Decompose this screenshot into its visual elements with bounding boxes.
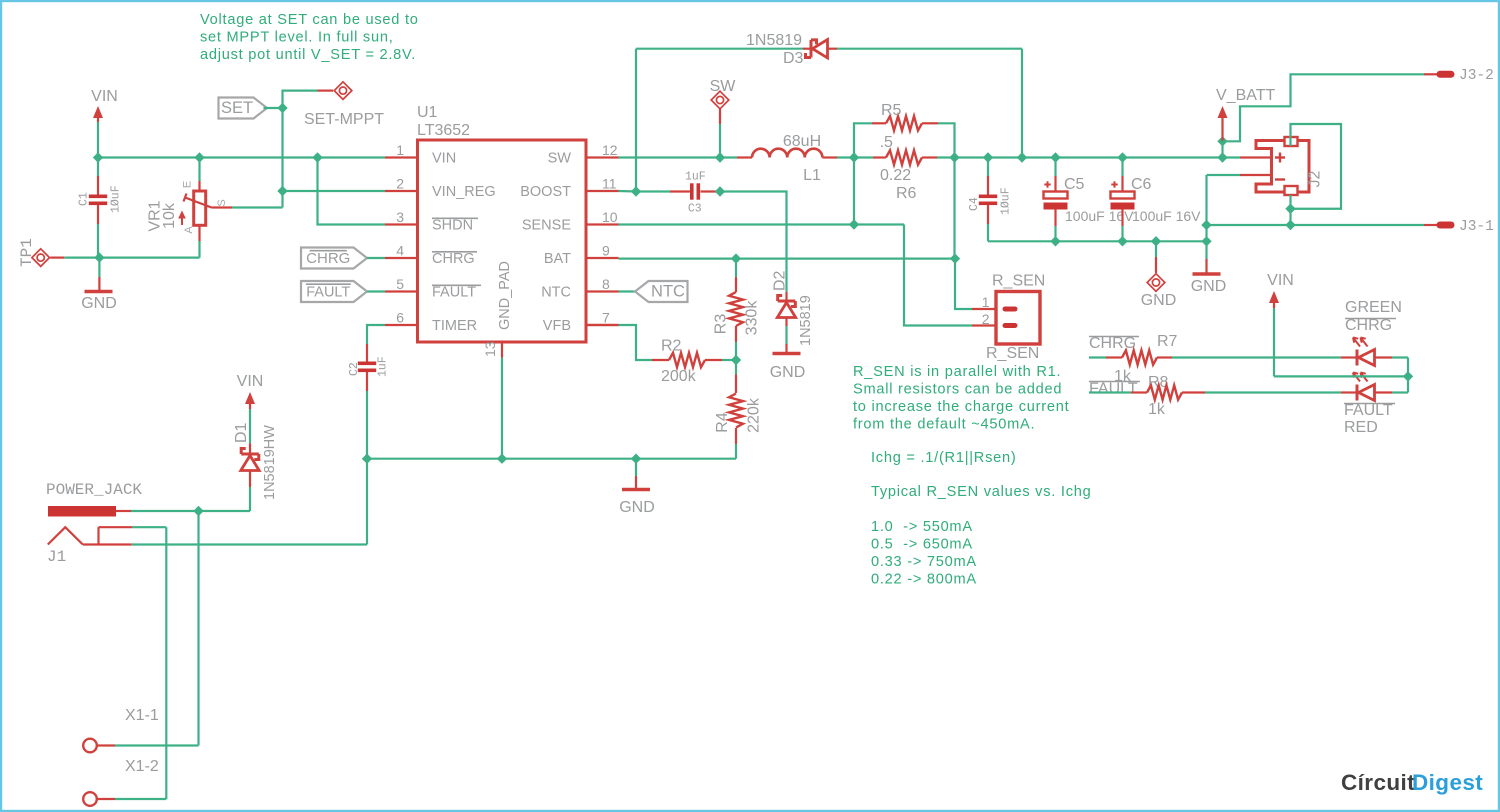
svg-text:1k: 1k — [1148, 401, 1166, 418]
svg-text:13: 13 — [482, 341, 498, 357]
svg-text:from the default ~450mA.: from the default ~450mA. — [853, 417, 1035, 433]
svg-text:VIN_REG: VIN_REG — [432, 184, 496, 200]
svg-text:100uF 16V: 100uF 16V — [1065, 208, 1134, 224]
svg-text:R3: R3 — [713, 314, 730, 335]
svg-text:12: 12 — [602, 142, 618, 158]
svg-text:C4: C4 — [968, 197, 981, 211]
svg-text:BOOST: BOOST — [520, 184, 571, 200]
svg-text:1N5819HW: 1N5819HW — [262, 425, 278, 500]
svg-text:.5: .5 — [880, 134, 893, 151]
svg-text:VIN: VIN — [1267, 272, 1294, 289]
svg-text:SET: SET — [221, 99, 253, 117]
svg-text:SET-MPPT: SET-MPPT — [304, 111, 384, 128]
svg-text:2: 2 — [982, 311, 990, 327]
svg-text:A: A — [183, 226, 195, 234]
svg-text:CHRG: CHRG — [306, 250, 350, 267]
svg-text:1N5819: 1N5819 — [746, 32, 802, 49]
svg-text:6: 6 — [396, 310, 404, 326]
svg-text:C1: C1 — [78, 192, 91, 206]
svg-text:X1-2: X1-2 — [125, 758, 159, 775]
svg-text:TIMER: TIMER — [432, 318, 477, 334]
svg-text:0.5 -> 650mA: 0.5 -> 650mA — [871, 537, 973, 553]
svg-text:D3: D3 — [783, 50, 804, 67]
svg-text:NTC: NTC — [541, 285, 571, 301]
svg-text:VIN: VIN — [237, 373, 264, 390]
svg-text:set MPPT level. In full sun,: set MPPT level. In full sun, — [200, 30, 394, 46]
svg-text:0.22 -> 800mA: 0.22 -> 800mA — [871, 572, 977, 588]
svg-text:R_SEN is in parallel with R1.: R_SEN is in parallel with R1. — [853, 364, 1061, 380]
svg-text:D1: D1 — [233, 422, 250, 443]
svg-text:FAULT: FAULT — [1344, 402, 1393, 419]
svg-text:adjust pot until V_SET = 2.8V.: adjust pot until V_SET = 2.8V. — [200, 47, 416, 63]
svg-text:FAULT: FAULT — [432, 285, 476, 301]
svg-text:C2: C2 — [348, 362, 361, 376]
svg-text:GND: GND — [81, 295, 117, 312]
svg-text:100uF 16V: 100uF 16V — [1132, 208, 1201, 224]
svg-text:7: 7 — [602, 310, 610, 326]
svg-text:330k: 330k — [744, 300, 761, 336]
svg-text:SW: SW — [548, 151, 572, 167]
svg-text:R_SEN: R_SEN — [986, 345, 1039, 362]
svg-text:R4: R4 — [714, 412, 731, 433]
svg-text:SW: SW — [710, 78, 737, 95]
svg-text:0.22: 0.22 — [880, 167, 911, 184]
svg-text:SENSE: SENSE — [522, 218, 571, 234]
svg-text:1: 1 — [396, 142, 404, 158]
svg-text:J1: J1 — [47, 548, 66, 566]
svg-text:2: 2 — [396, 176, 404, 192]
svg-text:NTC: NTC — [651, 283, 685, 301]
svg-text:J2: J2 — [1307, 170, 1324, 187]
svg-text:Voltage at SET can be used to: Voltage at SET can be used to — [200, 12, 419, 28]
svg-text:5: 5 — [396, 276, 404, 292]
svg-text:R7: R7 — [1157, 333, 1178, 350]
svg-text:POWER_JACK: POWER_JACK — [46, 481, 142, 499]
svg-text:Typical R_SEN values vs. Ichg: Typical R_SEN values vs. Ichg — [871, 484, 1091, 500]
svg-text:V_BATT: V_BATT — [1216, 87, 1276, 104]
svg-text:VIN: VIN — [432, 151, 456, 167]
svg-text:R2: R2 — [661, 338, 682, 355]
svg-text:D2: D2 — [772, 270, 789, 291]
svg-text:CHRG: CHRG — [1089, 335, 1136, 352]
svg-text:1ØuF: 1ØuF — [1000, 187, 1013, 215]
svg-text:GND: GND — [770, 364, 806, 381]
svg-text:GND: GND — [1191, 278, 1227, 295]
svg-text:1uF: 1uF — [377, 356, 390, 377]
svg-text:SHDN: SHDN — [432, 218, 473, 234]
svg-text:1ØuF: 1ØuF — [110, 185, 123, 213]
svg-text:FAULT: FAULT — [306, 285, 350, 301]
svg-text:R5: R5 — [881, 102, 902, 119]
svg-text:U1: U1 — [417, 104, 438, 121]
svg-text:C5: C5 — [1064, 176, 1085, 193]
svg-text:3: 3 — [396, 209, 404, 225]
svg-text:1N5819: 1N5819 — [798, 295, 814, 346]
svg-text:9: 9 — [602, 243, 610, 259]
svg-text:GND: GND — [619, 499, 655, 516]
svg-text:C3: C3 — [688, 203, 702, 216]
svg-text:GREEN: GREEN — [1345, 299, 1402, 316]
svg-text:GND: GND — [1141, 292, 1177, 309]
svg-text:Círcuit: Círcuit — [1341, 770, 1415, 795]
svg-text:J3-2: J3-2 — [1459, 68, 1494, 84]
svg-text:CHRG: CHRG — [1345, 317, 1392, 334]
svg-text:VIN: VIN — [91, 88, 118, 105]
svg-text:1.0 -> 550mA: 1.0 -> 550mA — [871, 519, 973, 535]
svg-text:X1-1: X1-1 — [125, 707, 159, 724]
svg-text:4: 4 — [396, 243, 404, 259]
svg-text:LT3652: LT3652 — [417, 122, 470, 139]
svg-text:0.33 -> 750mA: 0.33 -> 750mA — [871, 554, 977, 570]
svg-text:Digest: Digest — [1412, 770, 1483, 795]
svg-text:RED: RED — [1344, 419, 1378, 436]
svg-text:Ichg = .1/(R1||Rsen): Ichg = .1/(R1||Rsen) — [871, 450, 1016, 466]
svg-text:10k: 10k — [161, 202, 178, 229]
svg-text:R_SEN: R_SEN — [992, 273, 1045, 290]
svg-text:GND_PAD: GND_PAD — [497, 261, 513, 330]
svg-text:1: 1 — [982, 294, 990, 310]
svg-text:R6: R6 — [896, 185, 917, 202]
svg-text:1uF: 1uF — [685, 171, 706, 184]
svg-text:J3-1: J3-1 — [1459, 219, 1494, 235]
svg-text:68uH: 68uH — [783, 133, 821, 150]
svg-text:VFB: VFB — [543, 318, 571, 334]
svg-text:11: 11 — [602, 176, 617, 192]
svg-text:to increase the charge current: to increase the charge current — [853, 399, 1069, 415]
svg-text:BAT: BAT — [544, 251, 571, 267]
svg-text:Small resistors can be added: Small resistors can be added — [853, 382, 1062, 398]
svg-text:8: 8 — [602, 276, 610, 292]
svg-text:10: 10 — [602, 209, 618, 225]
svg-text:S: S — [216, 199, 228, 206]
svg-text:L1: L1 — [803, 167, 821, 184]
svg-text:CHRG: CHRG — [432, 251, 475, 267]
svg-text:TP1: TP1 — [18, 238, 36, 267]
svg-text:C6: C6 — [1131, 176, 1152, 193]
svg-text:E: E — [182, 181, 194, 188]
svg-text:200k: 200k — [661, 368, 697, 385]
svg-text:FAULT: FAULT — [1089, 381, 1138, 398]
svg-text:220k: 220k — [746, 397, 763, 433]
